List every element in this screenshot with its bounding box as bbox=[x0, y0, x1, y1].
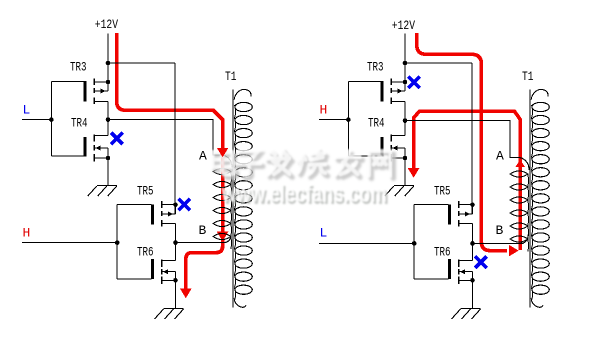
transformer T1 primary winding (A to B) bbox=[510, 157, 529, 251]
node: upper input junction bbox=[49, 117, 54, 122]
svg-text:B: B bbox=[496, 223, 504, 238]
blue X: TR3 off (right) bbox=[408, 77, 420, 89]
ground bbox=[385, 186, 414, 197]
wire: upper input bbox=[22, 119, 51, 121]
transistor TR4 bbox=[368, 116, 405, 162]
wire: branch +12V to TR5 (top horizontal) bbox=[405, 62, 472, 64]
node: TR4 source junction bbox=[106, 156, 111, 161]
red current path: node B through TR6 to ground bbox=[186, 240, 223, 290]
svg-text:A: A bbox=[496, 149, 504, 164]
node: TR5 top junction bbox=[470, 202, 475, 207]
red current path: through primary A to B bbox=[221, 156, 225, 232]
svg-text:TR5: TR5 bbox=[434, 184, 451, 199]
wire: TR3 drain to TR4 drain bbox=[107, 102, 109, 136]
ground bbox=[155, 309, 184, 320]
red arrowhead into TR4 bbox=[408, 168, 420, 178]
wire: gate bus TR5/TR6 bbox=[413, 205, 415, 279]
svg-text:TR5: TR5 bbox=[137, 184, 154, 199]
ground bbox=[88, 186, 117, 197]
svg-text:L: L bbox=[320, 226, 328, 241]
node: TR6 source junction bbox=[173, 278, 178, 283]
wire: lower input bbox=[319, 242, 414, 244]
red arrowhead at node A (left, redrawn vivid) bbox=[221, 121, 225, 148]
wire: node B to transformer bbox=[176, 242, 227, 244]
wire: TR3 drain to TR4 drain bbox=[404, 102, 406, 136]
ground bbox=[452, 309, 481, 320]
svg-text:L: L bbox=[23, 103, 31, 118]
node: TR5 top junction bbox=[173, 202, 178, 207]
svg-text:T1: T1 bbox=[522, 69, 534, 84]
wire: lower input bbox=[22, 242, 117, 244]
transistor TR3 bbox=[70, 60, 108, 105]
blue X: TR5 off (left) bbox=[178, 199, 190, 211]
svg-text:H: H bbox=[320, 103, 328, 118]
transistor TR4 bbox=[71, 116, 108, 162]
transformer T1 secondary winding bbox=[531, 89, 549, 307]
wire: TR5 source to node B to TR6 drain bbox=[175, 224, 177, 261]
blue X: TR4 off (left) bbox=[111, 133, 123, 145]
wire: gate bus TR3/TR4 bbox=[50, 82, 52, 157]
transformer T1 core bbox=[529, 90, 531, 308]
wire: TR5 source to node B to TR6 drain bbox=[472, 224, 474, 261]
red current path: +12V through TR5 to node B bbox=[417, 33, 507, 251]
svg-text:TR6: TR6 bbox=[137, 245, 154, 260]
node: lower input junction bbox=[115, 240, 120, 245]
node: upper input junction bbox=[346, 117, 351, 122]
svg-text:TR6: TR6 bbox=[434, 245, 451, 260]
node: node B junction bbox=[470, 241, 475, 246]
node: half-bridge 1 output junction bbox=[106, 117, 111, 122]
red current path: up through primary B to A bbox=[414, 111, 521, 250]
svg-text:A: A bbox=[199, 149, 207, 164]
wire: branch down to TR5 bbox=[471, 63, 473, 214]
node: +12V branch junction bbox=[403, 61, 408, 66]
wire: upper input bbox=[319, 119, 348, 121]
transistor TR3 bbox=[367, 60, 405, 105]
wire: branch down to TR5 bbox=[174, 63, 176, 214]
svg-text:T1: T1 bbox=[225, 69, 237, 84]
wire: +12V rail down to TR3 bbox=[107, 34, 109, 92]
wire: output to node A bbox=[405, 121, 518, 158]
transformer T1 secondary winding bbox=[234, 89, 252, 307]
node: lower input junction bbox=[412, 241, 417, 246]
wire: TR4 source to ground bbox=[404, 158, 406, 186]
svg-text:TR3: TR3 bbox=[70, 60, 87, 75]
svg-text:+12V: +12V bbox=[392, 18, 415, 33]
svg-text:H: H bbox=[23, 226, 31, 241]
wire: node B to transformer bbox=[473, 242, 524, 244]
wire: TR6 source to ground bbox=[472, 280, 474, 308]
wire: TR6 source to ground bbox=[175, 280, 177, 308]
node: half-bridge 1 output junction bbox=[403, 118, 408, 123]
svg-text:TR3: TR3 bbox=[367, 60, 384, 75]
wire: output to node A bbox=[108, 120, 221, 155]
blue X: TR6 off (right) bbox=[475, 256, 487, 268]
node: TR4 source junction bbox=[403, 156, 408, 161]
wire: gate bus TR5/TR6 bbox=[116, 205, 118, 279]
watermark band bbox=[213, 149, 394, 210]
node: TR3 source junction bbox=[403, 80, 408, 85]
svg-text:TR4: TR4 bbox=[368, 116, 385, 131]
transistor TR6 bbox=[137, 245, 176, 284]
svg-text:TR4: TR4 bbox=[71, 116, 88, 131]
wire: TR4 source to ground bbox=[107, 158, 109, 186]
node: node B junction bbox=[173, 240, 178, 245]
transformer T1 core bbox=[232, 90, 234, 308]
node: +12V branch junction bbox=[106, 61, 111, 66]
transistor TR5 bbox=[434, 184, 473, 227]
svg-text:+12V: +12V bbox=[95, 17, 118, 32]
node: TR6 source junction bbox=[470, 278, 475, 283]
transformer T1 primary winding (A to B) bbox=[213, 155, 232, 249]
wire: +12V rail down to TR3 bbox=[404, 34, 406, 92]
svg-text:www.elecfans.com: www.elecfans.com bbox=[221, 180, 387, 208]
node: TR3 source junction bbox=[106, 80, 111, 85]
wire: branch +12V to TR5 (top horizontal) bbox=[108, 62, 175, 64]
red current path: +12V through TR3 to node A bbox=[117, 33, 223, 148]
transistor TR5 bbox=[137, 184, 176, 227]
transistor TR6 bbox=[434, 245, 473, 284]
svg-text:B: B bbox=[199, 223, 207, 238]
wire: gate bus TR3/TR4 bbox=[347, 82, 349, 157]
